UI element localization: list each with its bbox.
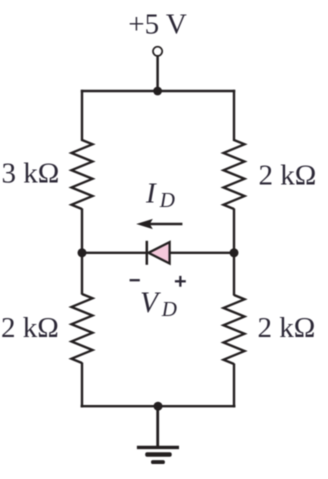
wire: right rail upper segment: [233, 90, 235, 141]
label minus (diode polarity): [130, 279, 140, 281]
node: top junction dot: [153, 87, 162, 96]
node: right junction dot: [230, 248, 239, 257]
current arrow I_D (head): [136, 219, 153, 229]
ground (middle bar): [145, 452, 172, 456]
wire: supply stub from terminal to top rail: [156, 56, 159, 91]
wire: left rail lower segment: [81, 363, 83, 408]
resistor 2 kOhm (lower left): [72, 294, 93, 363]
wire: left rail between resistors: [81, 209, 83, 295]
wire: middle branch right (diode anode to right node): [169, 252, 234, 254]
resistor 3 kOhm (upper left): [72, 140, 93, 209]
diode D (cathode bar): [146, 241, 149, 265]
wire: bottom horizontal rail: [81, 405, 236, 407]
svg-text:V: V: [140, 287, 161, 319]
svg-text:I: I: [145, 177, 157, 209]
svg-text:2 kΩ: 2 kΩ: [258, 312, 316, 344]
wire: middle branch left (left node to diode cathode): [82, 252, 147, 254]
wire: left rail upper segment: [81, 90, 83, 141]
terminal (open circle) for +5 V supply: [153, 47, 162, 56]
svg-text:D: D: [159, 188, 175, 212]
resistor 2 kOhm (upper right): [224, 140, 245, 209]
svg-text:3 kΩ: 3 kΩ: [2, 158, 60, 190]
ground (top bar): [137, 446, 179, 449]
ground (bottom bar): [151, 460, 165, 464]
wire: right rail lower segment: [233, 364, 235, 408]
node: left junction dot: [78, 248, 87, 257]
current arrow I_D (shaft): [147, 223, 182, 226]
svg-text:2 kΩ: 2 kΩ: [259, 160, 317, 192]
label plus (diode polarity): [175, 280, 186, 282]
svg-text:D: D: [161, 297, 177, 321]
node: bottom junction dot: [154, 402, 163, 411]
wire: top horizontal rail: [81, 90, 235, 92]
resistor 2 kOhm (lower right): [224, 295, 245, 364]
svg-text:+5 V: +5 V: [128, 9, 187, 41]
svg-text:2 kΩ: 2 kΩ: [1, 312, 59, 344]
diode D (triangle, pointing left, pink fill): [148, 242, 169, 263]
wire: right rail between resistors: [233, 209, 235, 296]
wire: ground stub: [156, 406, 159, 447]
